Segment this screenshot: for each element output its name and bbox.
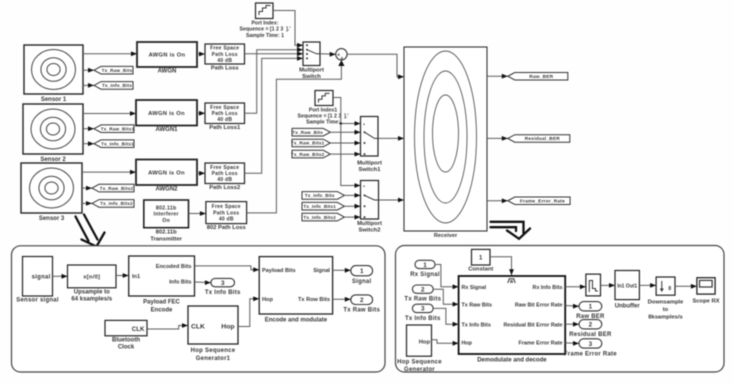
svg-text:AWGN is On: AWGN is On [149, 53, 186, 59]
Payload FEC Encode block [129, 256, 195, 314]
svg-text:40 dB: 40 dB [217, 117, 232, 123]
AWGN channel block AWGN2 [136, 160, 197, 193]
svg-text:Free Space: Free Space [210, 165, 239, 171]
wire Residual Bit Error Rate to port [565, 322, 579, 327]
goto tag Raw_BER [508, 73, 568, 81]
Sensor 2 source block [23, 104, 83, 163]
svg-text:Multiport: Multiport [299, 68, 324, 74]
svg-text:Free Space: Free Space [210, 105, 239, 111]
annotation arrow to receiver subsystem [491, 222, 531, 239]
svg-text:Frame Error Rate: Frame Error Rate [518, 341, 562, 347]
svg-text:40 dB: 40 dB [219, 217, 234, 223]
Path Loss block [205, 44, 245, 72]
svg-text:Clock: Clock [118, 345, 135, 351]
goto tag Frame_Error_Rate [508, 197, 570, 205]
sum junction [336, 49, 347, 62]
wire Receiver to Residual_BER [487, 136, 508, 141]
Downsample block [648, 277, 685, 321]
Demodulate and decode block [459, 276, 566, 364]
svg-text:Rx Signal: Rx Signal [462, 285, 487, 291]
svg-text:Tx_Raw_Bits: Tx_Raw_Bits [292, 130, 323, 135]
wire switch to sum [320, 52, 336, 57]
input port 2 Tx Raw Bits [404, 285, 441, 303]
wire AWGN to Path Loss [197, 52, 205, 57]
svg-text:2: 2 [589, 322, 593, 329]
svg-text:Tx_Info_Bits2: Tx_Info_Bits2 [100, 201, 133, 206]
svg-text:Bluetooth: Bluetooth [112, 337, 140, 343]
wire Path Loss2 to switch input3 [245, 56, 304, 173]
wire port3 to Tx Info Bits input [433, 308, 458, 326]
goto tag Tx_Info_Bits2 [92, 200, 134, 208]
svg-text:x[n/0]: x[n/0] [83, 274, 100, 280]
svg-text:Tx_Raw_Bits1: Tx_Raw_Bits1 [291, 141, 325, 146]
wire switch1 to Receiver input2 [379, 136, 405, 141]
svg-text:Hop: Hop [221, 324, 234, 331]
wire from tag to switch1 input2 [330, 141, 360, 146]
Path Loss2 block [205, 163, 245, 191]
svg-text:In1: In1 [132, 274, 140, 280]
svg-text:Signal: Signal [313, 268, 330, 274]
Port Index1 label line2 [298, 114, 349, 120]
svg-text:Frame Error Rate: Frame Error Rate [564, 351, 617, 357]
Receiver block [404, 47, 487, 239]
wire Port Index1 to switch1 control [333, 98, 361, 126]
wire Tx Raw Bits to port 2 [333, 297, 351, 302]
svg-text:Constant: Constant [468, 267, 493, 273]
wire Info Bits to port 3 [195, 280, 211, 285]
Path Loss1 block [205, 103, 245, 131]
svg-text:Residual_BER: Residual_BER [525, 136, 561, 142]
svg-text:Raw Bit Error Rate: Raw Bit Error Rate [515, 302, 563, 308]
wire Sensor2 signal to AWGN1 [83, 111, 136, 116]
goto tag Tx_Raw_Bits1 [94, 125, 135, 133]
Multiport Switch1 block [357, 117, 382, 174]
svg-text:Encode and modulate: Encode and modulate [265, 318, 328, 324]
svg-text:Tx_Raw_Bits2: Tx_Raw_Bits2 [291, 152, 325, 157]
wire rate block to Unbuffer [601, 283, 616, 288]
svg-text:Tx Info Bits: Tx Info Bits [405, 316, 441, 322]
Upsample block [68, 265, 117, 303]
output port 3 Tx Info Bits [205, 278, 241, 296]
svg-text:Tx Info Bits: Tx Info Bits [205, 290, 241, 296]
from tag Tx_Raw_Bits [292, 128, 330, 136]
svg-text:802.11b: 802.11b [156, 229, 177, 235]
wire Sensor1 signal to AWGN [83, 51, 137, 56]
svg-text:Multiport: Multiport [357, 221, 382, 227]
output port 3 Frame Error Rate [564, 339, 617, 358]
wire Encoded Bits to Encode and modulate [195, 266, 260, 272]
from tag Tx_Info_Bits2 [302, 213, 344, 221]
wire Bluetooth Clock to Hop Sequence Generator1 [147, 323, 188, 329]
svg-text:Tx_Info_Bits1: Tx_Info_Bits1 [303, 204, 336, 209]
svg-text:Tx_Info_Bits: Tx_Info_Bits [305, 193, 335, 198]
wire Rx Info Bits to rate block [565, 284, 586, 289]
svg-text:Encoded Bits: Encoded Bits [156, 264, 192, 270]
svg-text:Tx_Info_Bits2: Tx_Info_Bits2 [303, 215, 336, 220]
wire AWGN1 to Path Loss1 [197, 111, 205, 116]
transmitter subsystem panel border [12, 246, 386, 372]
svg-text:In1 Out1: In1 Out1 [617, 284, 637, 290]
wire Port Index1 to switch2 control [341, 124, 361, 188]
svg-text:Rx Info Bits: Rx Info Bits [533, 285, 563, 291]
wire Path Loss1 to switch input1 [245, 47, 304, 113]
wire from tag to switch2 input3 [344, 215, 360, 220]
from tag Tx_Raw_Bits2 [291, 150, 330, 158]
svg-text:AWGN is On: AWGN is On [148, 111, 185, 117]
svg-text:Tx_Raw_Bits: Tx_Raw_Bits [102, 68, 133, 73]
svg-text:Interferer: Interferer [154, 212, 179, 218]
svg-text:64 ksamples/s: 64 ksamples/s [71, 297, 112, 303]
svg-text:Hop Sequence: Hop Sequence [191, 348, 236, 354]
Hop Sequence Generator block [397, 325, 442, 373]
svg-text:AWGN1: AWGN1 [155, 127, 178, 133]
svg-text:Hop Sequence: Hop Sequence [397, 360, 442, 366]
goto tag Tx_Raw_Bits [94, 66, 133, 74]
goto tag Tx_Info_Bits [94, 82, 133, 90]
svg-text:Downsample: Downsample [648, 300, 685, 306]
svg-text:Tx Raw Bits: Tx Raw Bits [343, 308, 380, 314]
from tag Tx_Info_Bits [302, 192, 344, 200]
rate transition pulse block [586, 274, 601, 296]
svg-text:Unbuffer: Unbuffer [615, 304, 641, 310]
svg-text:1: 1 [589, 304, 593, 311]
wire Downsample to Scope [675, 284, 697, 289]
svg-text:Free Space: Free Space [210, 46, 239, 52]
Hop Sequence Generator1 block [188, 306, 238, 362]
svg-text:Path Loss: Path Loss [212, 171, 238, 177]
svg-text:CLK: CLK [132, 326, 145, 333]
wire from tag to switch1 input1 [330, 130, 360, 135]
svg-text:Tx_Info_Bits1: Tx_Info_Bits1 [101, 141, 134, 146]
Encode and modulate block [259, 257, 332, 324]
svg-text:Switch2: Switch2 [359, 228, 381, 234]
svg-text:1: 1 [479, 255, 483, 261]
Port Index1 label line1 [309, 107, 337, 113]
svg-text:40 dB: 40 dB [217, 58, 232, 64]
output port 1 Signal [351, 266, 373, 285]
output port 2 Tx Raw Bits [343, 295, 380, 314]
svg-text:Signal: Signal [352, 279, 372, 285]
output port 1 Raw BER [576, 302, 605, 321]
AWGN channel block AWGN [137, 42, 197, 75]
wire Sensor3 info bits [82, 201, 92, 206]
svg-text:3: 3 [221, 280, 225, 287]
Multiport Switch2 block [357, 181, 382, 234]
wire 802.11b to 802 Path Loss [189, 211, 206, 216]
wire port1 to Rx Signal input [435, 265, 459, 290]
svg-text:Tx Raw Bits: Tx Raw Bits [462, 302, 493, 308]
wire Sensor signal to Upsample [53, 274, 68, 279]
svg-text:Sensor signal: Sensor signal [16, 298, 59, 304]
Port Index1 label line3 [306, 120, 340, 126]
wire Hop to Encode and modulate [238, 296, 259, 326]
svg-text:AWGN: AWGN [158, 69, 177, 75]
svg-text:signal: signal [32, 274, 51, 280]
wire Port Index to Multiport Switch control [273, 11, 303, 48]
svg-text:Sensor 3: Sensor 3 [39, 216, 65, 222]
svg-text:Receiver: Receiver [434, 233, 458, 239]
svg-text:Info Bits: Info Bits [169, 280, 191, 286]
from tag Tx_Raw_Bits1 [291, 139, 330, 147]
Sensor signal source block [16, 257, 59, 304]
wire from tag to switch2 input1 [344, 193, 360, 198]
Sensor 1 source block [24, 45, 83, 103]
svg-text:Tx Raw Bits: Tx Raw Bits [404, 297, 441, 303]
Constant block [468, 249, 493, 272]
svg-text:to: to [663, 307, 669, 313]
svg-text:Multiport: Multiport [357, 161, 382, 167]
Port Index sequence source block [256, 3, 274, 19]
svg-text:802.11b: 802.11b [156, 205, 177, 211]
wire Receiver to Frame_Error_Rate [487, 198, 508, 203]
svg-text:Frame_Error_Rate: Frame_Error_Rate [520, 199, 565, 205]
svg-text:40 dB: 40 dB [217, 177, 232, 183]
Bluetooth Clock CLK text [132, 326, 145, 333]
svg-text:Port Index1: Port Index1 [309, 107, 337, 113]
annotation arrow to transmitter subsystem [76, 215, 105, 247]
wire Upsample to Payload FEC [116, 273, 129, 278]
Multiport Switch block [299, 42, 324, 80]
wire Hop generator to Hop input [432, 340, 459, 346]
svg-text:Tx Row Bits: Tx Row Bits [298, 297, 330, 303]
svg-text:8ksamples/s: 8ksamples/s [648, 315, 682, 321]
svg-text:1: 1 [423, 262, 427, 269]
svg-text:Path Loss: Path Loss [212, 52, 238, 58]
svg-text:2: 2 [360, 297, 364, 304]
input port 3 Tx Info Bits [405, 304, 441, 322]
svg-text:Upsample to: Upsample to [74, 289, 110, 295]
svg-text:Tx_Info_Bits: Tx_Info_Bits [102, 83, 132, 88]
svg-text:2: 2 [421, 286, 425, 293]
wire Frame Error Rate to port [565, 341, 579, 346]
svg-text:Rx Signal: Rx Signal [410, 272, 440, 278]
from tag Tx_Info_Bits1 [302, 202, 344, 210]
svg-text:3: 3 [421, 306, 425, 313]
wire Signal to port 1 [333, 268, 351, 273]
wire Path Loss to switch input2 [245, 51, 304, 56]
svg-text:Payload FEC: Payload FEC [143, 300, 180, 306]
svg-text:CLK: CLK [191, 324, 205, 331]
wire Constant to enable port [490, 257, 514, 276]
svg-text:1: 1 [360, 268, 364, 275]
wire Sensor3 raw bits [82, 186, 92, 191]
svg-text:Path Loss: Path Loss [212, 111, 238, 117]
wire AWGN2 to Path Loss2 [197, 171, 205, 176]
802 Path Loss block [206, 202, 247, 232]
goto tag Residual_BER [508, 135, 570, 143]
svg-text:Sensor 2: Sensor 2 [40, 157, 66, 163]
Scope RX block [692, 278, 719, 305]
svg-text:Path Loss2: Path Loss2 [209, 185, 240, 191]
wire Raw Bit Error Rate to port [565, 304, 579, 309]
802.11b interferer transmitter block [144, 200, 189, 242]
svg-text:Raw_BER: Raw_BER [529, 74, 553, 80]
wire Sensor2 raw bits [83, 126, 94, 131]
receiver subsystem panel border [396, 246, 725, 373]
svg-text:On: On [162, 218, 170, 224]
svg-text:Generator1: Generator1 [196, 356, 231, 362]
svg-text:Hop: Hop [462, 341, 473, 347]
wire Unbuffer to Downsample [639, 283, 656, 288]
svg-text:Generator: Generator [404, 367, 435, 373]
svg-text:802 Path Loss: 802 Path Loss [207, 225, 246, 231]
wire Sensor1 raw bits [83, 68, 94, 73]
Bluetooth Clock block [105, 320, 147, 350]
goto tag Tx_Raw_Bits2 [92, 184, 134, 192]
svg-text:3: 3 [589, 341, 593, 348]
svg-text:AWGN2: AWGN2 [155, 187, 178, 193]
svg-text:Sample Time:: Sample Time: [306, 120, 340, 126]
svg-text:Scope RX: Scope RX [692, 299, 719, 305]
svg-text:Tx Info Bits: Tx Info Bits [462, 322, 491, 328]
svg-text:Payload Bits: Payload Bits [262, 268, 296, 274]
Port Index label line3 [246, 33, 284, 39]
svg-text:Hop: Hop [262, 297, 273, 303]
Port Index label line2 [240, 27, 291, 33]
svg-text:Hop: Hop [419, 339, 431, 345]
wire Sensor1 info bits [83, 83, 94, 88]
svg-text:Encode: Encode [151, 308, 173, 314]
svg-text:Sensor 1: Sensor 1 [41, 97, 67, 103]
output port 2 Residual BER [569, 320, 612, 339]
svg-text:AWGN is On: AWGN is On [148, 170, 185, 176]
svg-text:Demodulate and decode: Demodulate and decode [477, 358, 547, 364]
svg-text:Transmitter: Transmitter [150, 236, 182, 242]
goto tag Tx_Info_Bits1 [94, 140, 134, 148]
wire sum to Receiver input1 [347, 54, 404, 79]
svg-text:Tx_Raw_Bits1: Tx_Raw_Bits1 [101, 126, 135, 131]
Port Index label line1 [251, 21, 278, 27]
wire Sensor3 signal to AWGN2 [82, 170, 136, 175]
Port Index1 sequence source block [315, 91, 333, 106]
svg-text:Tx_Raw_Bits2: Tx_Raw_Bits2 [100, 186, 134, 191]
svg-text:Sequence = [1 2 3 ].': Sequence = [1 2 3 ].' [240, 27, 291, 33]
svg-text:Path Loss: Path Loss [211, 66, 239, 72]
wire port2 to Tx Raw Bits input [433, 289, 458, 306]
Unbuffer block [615, 271, 641, 310]
svg-text:Sample Time: 1: Sample Time: 1 [246, 33, 284, 39]
Sensor 3 source block [21, 163, 82, 222]
svg-text:Free Space: Free Space [212, 204, 241, 210]
svg-text:8: 8 [668, 286, 671, 292]
wire Receiver to Raw_BER [487, 74, 508, 79]
svg-text:Residual Bit Error Rate: Residual Bit Error Rate [503, 322, 562, 328]
input port 1 Rx Signal [410, 260, 440, 278]
svg-text:Port Index:: Port Index: [251, 21, 278, 27]
AWGN channel block AWGN1 [136, 100, 197, 133]
wire Sensor2 info bits [83, 141, 94, 146]
wire from tag to switch2 input2 [344, 204, 360, 209]
svg-text:Path Loss: Path Loss [213, 210, 239, 216]
svg-text:Residual BER: Residual BER [569, 332, 612, 338]
wire switch2 to Receiver input3 [379, 198, 405, 203]
svg-text:Switch1: Switch1 [359, 167, 382, 173]
wire 802 path loss to sum [247, 66, 342, 213]
svg-text:Path Loss1: Path Loss1 [209, 125, 241, 131]
wire from tag to switch1 input3 [330, 152, 360, 157]
